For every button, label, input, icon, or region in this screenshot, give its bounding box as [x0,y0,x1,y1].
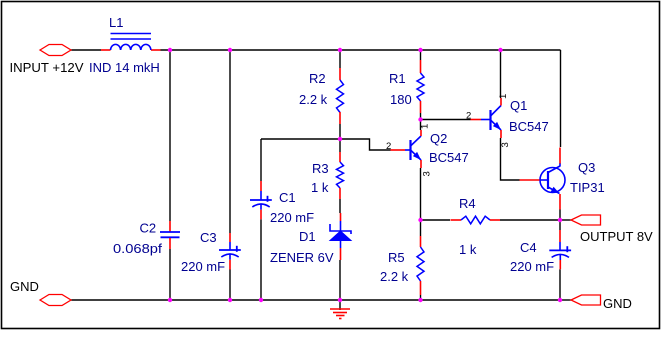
terminal GND right [571,295,632,311]
capacitor C4 [510,230,571,274]
node bottom C1 [259,298,263,302]
svg-text:IND 14 mkH: IND 14 mkH [89,60,160,75]
svg-text:R5: R5 [388,250,405,265]
svg-text:2.2 k: 2.2 k [380,269,409,284]
transistor Q1 [466,94,549,148]
wire R3 top stub [339,139,341,152]
node top C3 [228,48,232,52]
wire Q2 emitter down to R4 node [420,168,422,220]
svg-text:3: 3 [422,171,433,176]
svg-text:L1: L1 [109,15,123,30]
wire R2 bottom to junction [339,124,341,139]
svg-text:TIP31: TIP31 [570,180,605,195]
capacitor C2 [113,220,180,256]
svg-text:D1: D1 [299,229,316,244]
svg-text:INPUT +12V: INPUT +12V [10,60,84,75]
svg-text:1 k: 1 k [311,180,329,195]
svg-text:2: 2 [466,111,471,122]
wire R4 right to output node [500,219,560,221]
node R2-R3 [338,137,342,141]
svg-text:1: 1 [498,94,509,99]
terminal GND left [10,279,71,306]
wire Q3 emitter to output node [559,210,561,221]
transistor Q3 [520,148,605,210]
svg-text:C1: C1 [279,190,296,205]
wire bus to GND tag [560,299,571,301]
node top R2 [338,48,342,52]
resistor R1 [389,60,424,113]
wire top bus [71,49,101,51]
wire right column down to Q3 collector [560,50,562,147]
svg-text:R4: R4 [459,196,476,211]
transistor Q2 [386,124,469,177]
wire after inductor to top-right corner [161,49,561,51]
svg-text:BC547: BC547 [509,119,549,134]
svg-text:3: 3 [500,142,511,147]
capacitor C1 [250,181,314,225]
svg-text:C2: C2 [140,220,157,235]
node bottom C2 [168,298,172,302]
wire C4 bottom to bus [559,269,561,300]
svg-text:1 k: 1 k [459,242,477,257]
wire C1 column lower [260,219,262,300]
svg-text:Q2: Q2 [430,131,447,146]
node R1-Q2 [418,117,422,121]
node top Q1 [498,48,502,52]
wire Q1 collector up to bus [500,50,502,98]
node bottom D1 [338,298,342,302]
svg-text:Q1: Q1 [510,98,527,113]
svg-text:BC547: BC547 [429,150,469,165]
wire ground stub [339,300,341,310]
wire C2 column upper [169,50,171,221]
svg-text:2.2 k: 2.2 k [299,92,328,107]
capacitor C3 [181,230,241,274]
svg-text:R1: R1 [389,71,406,86]
wire C2 column lower [169,249,171,300]
wire R5 bottom to bus [420,295,422,300]
svg-text:R2: R2 [309,71,326,86]
wire R1 bottom to node [420,113,422,119]
terminal OUTPUT 8V [571,215,653,244]
wire C1 column upper [260,139,262,181]
node bottom C3 [228,298,232,302]
wire step to Q2 base [340,139,391,150]
wire R3 bottom to D1 [339,199,341,213]
resistor R5 [380,236,424,295]
wire R4 node to R5 [420,220,422,236]
svg-text:1: 1 [420,124,431,129]
svg-text:C3: C3 [200,230,217,245]
ground symbol [330,309,350,319]
wire C3 column lower [229,270,231,301]
wire R1 top stub [420,50,422,60]
node bottom R5 [418,298,422,302]
wire R2 top stub [339,50,341,68]
wire C4 top stub [559,220,561,230]
resistor R4 [451,196,501,257]
wire node A horizontal (base feed) [261,138,340,140]
svg-text:ZENER 6V: ZENER 6V [270,250,334,265]
node top L1 out [168,48,172,52]
wire D1 bottom to bus [339,260,341,300]
svg-text:0.068pf: 0.068pf [113,241,162,256]
node bottom C4 [558,298,562,302]
wire node to Q1 base [421,119,471,121]
wire Q2 collector to node [420,119,422,130]
svg-text:OUTPUT 8V: OUTPUT 8V [580,229,653,244]
svg-text:R3: R3 [312,161,329,176]
svg-text:220 mF: 220 mF [270,210,314,225]
wire R4 left from node [421,219,451,221]
svg-text:GND: GND [603,296,632,311]
svg-text:C4: C4 [520,240,537,255]
zener diode D1 [270,213,351,265]
svg-text:Q3: Q3 [578,160,595,175]
inductor L1 [89,15,161,75]
wire Q1 emitter down to Q3 base [501,138,520,180]
node output [558,218,562,222]
wire output node to terminal [560,219,571,221]
resistor R2 [299,68,344,124]
svg-text:2: 2 [386,141,391,152]
terminal INPUT +12V [10,45,84,76]
node top R1 [418,48,422,52]
node R4 left [418,218,422,222]
wire C3 column upper [229,50,231,233]
svg-text:220 mF: 220 mF [510,259,554,274]
svg-text:GND: GND [10,279,39,294]
wire bottom bus [71,299,561,301]
svg-text:220 mF: 220 mF [181,259,225,274]
svg-text:180: 180 [390,92,412,107]
resistor R3 [311,152,344,199]
